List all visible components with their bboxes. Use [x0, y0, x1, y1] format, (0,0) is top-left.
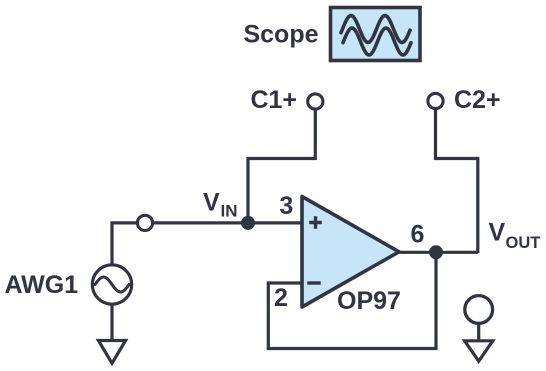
svg-text:V: V — [203, 189, 220, 217]
node VIN junction — [241, 216, 255, 230]
scope icon U-scope — [331, 8, 421, 61]
wire C1 drop to input node — [248, 106, 315, 222]
svg-text:OP97: OP97 — [337, 287, 401, 315]
svg-text:OUT: OUT — [506, 234, 541, 252]
svg-text:IN: IN — [221, 202, 238, 221]
wire feedback pin2 loop — [268, 252, 436, 348]
probe terminal C2+ — [428, 93, 443, 108]
svg-text:6: 6 — [411, 221, 425, 249]
svg-text:3: 3 — [279, 192, 293, 220]
probe terminal C1+ — [308, 94, 323, 109]
wire output pin 6 — [398, 251, 478, 254]
op-amp U1 OP97 — [302, 197, 399, 308]
wire C2 drop to output node — [436, 106, 478, 253]
terminal on input wire — [137, 215, 152, 230]
svg-text:V: V — [489, 218, 506, 246]
svg-text:AWG1: AWG1 — [5, 271, 79, 299]
ground AWG1 — [98, 341, 125, 364]
node VOUT junction — [429, 245, 443, 259]
label VIN — [203, 189, 238, 221]
svg-text:Scope: Scope — [243, 21, 318, 49]
svg-text:2: 2 — [274, 284, 288, 312]
wire AWG1 to ground — [110, 304, 113, 341]
label VOUT — [489, 218, 541, 252]
wire AWG1 to op-amp pin 3 — [112, 223, 302, 266]
svg-text:C2+: C2+ — [454, 86, 501, 114]
svg-text:C1+: C1+ — [250, 86, 297, 114]
ground scope reference — [465, 296, 493, 362]
source AWG1 — [92, 265, 131, 304]
